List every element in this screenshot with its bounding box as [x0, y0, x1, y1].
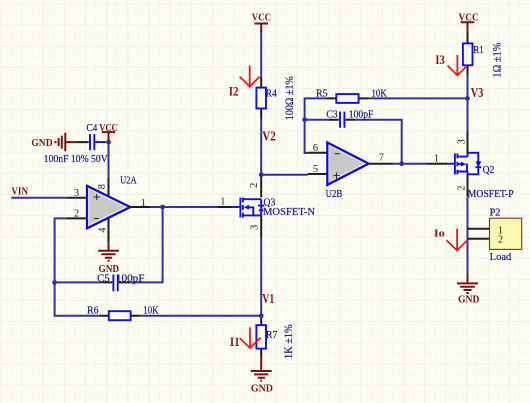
transistor Q3 bulk arm with arrow: [244, 205, 254, 216]
value R1 1 Ohm rotated: [490, 42, 504, 77]
current label I1: [230, 335, 240, 349]
current arrow I3: [448, 55, 468, 75]
power label GND2: [99, 264, 120, 275]
pin number 1 Q3 gate: [220, 197, 225, 208]
svg-text:GND: GND: [458, 294, 479, 305]
value C4 100nF 10% 50V: [44, 154, 108, 165]
resistor R4 body: [256, 88, 266, 109]
svg-text:GND: GND: [31, 138, 52, 149]
pin number 7 U2B: [379, 152, 384, 163]
transistor Q3 gate bar: [239, 198, 241, 218]
svg-text:R5: R5: [316, 88, 328, 99]
designator R7: [266, 330, 278, 341]
transistor Q2 gate lead: [448, 163, 455, 165]
svg-text:1: 1: [141, 198, 146, 209]
value R7 1K rotated: [283, 324, 295, 359]
svg-text:5: 5: [313, 164, 318, 175]
pin number 2 U2A: [74, 209, 79, 220]
power label VCC1: [99, 123, 118, 134]
wire node A to C5 left: [55, 281, 103, 283]
junction node C3 branch: [302, 117, 307, 122]
pin number 2 Q3 drain rotated: [249, 183, 260, 188]
junction node output U2A: [160, 205, 165, 210]
wire C5 right up to output net: [129, 207, 163, 282]
transistor Q2 body diode: [475, 161, 481, 167]
pin number 3 Q2 drain rotated: [457, 139, 468, 144]
svg-text:VCC: VCC: [252, 12, 271, 23]
wire node A down to R6: [55, 282, 99, 315]
op-amp U2B pin 6: [308, 152, 328, 154]
pin number 3 U2A: [74, 188, 79, 199]
svg-text:4: 4: [97, 227, 108, 233]
net label VIN: [11, 186, 28, 197]
op-amp U2A minus sign: [94, 218, 99, 220]
wire node V2 to U2B pin 5: [261, 174, 307, 176]
power port VCC1 above C4: [102, 132, 115, 140]
op-amp U2B pin 5: [308, 173, 328, 175]
resistor R6 pins: [99, 315, 141, 317]
junction node feedback A: [52, 280, 57, 285]
svg-text:V1: V1: [262, 292, 274, 307]
svg-text:100Ω ±1%: 100Ω ±1%: [282, 76, 296, 120]
svg-text:100pF: 100pF: [349, 109, 374, 120]
svg-text:1Ω ±1%: 1Ω ±1%: [490, 42, 504, 77]
junction node at VCC1/C4: [106, 140, 111, 145]
ground GND4 below load: [457, 274, 478, 294]
op-amp U2A pin 3: [66, 197, 87, 199]
resistor R1 pins: [467, 33, 469, 75]
junction node V2/pin5: [259, 172, 264, 177]
junction node V3: [465, 96, 470, 101]
current label I3: [435, 53, 444, 67]
wire R1 bottom to node V3: [467, 75, 469, 99]
capacitor C4 plates: [90, 134, 94, 150]
wire U2A pin2 feedback left elbow: [55, 218, 67, 282]
svg-text:1: 1: [220, 197, 225, 208]
value Q2 MOSFET-P: [468, 189, 514, 200]
capacitor C5 pins: [102, 281, 129, 283]
pin number 1 Q2 gate: [434, 154, 439, 165]
op-amp U2A body: [87, 186, 130, 229]
wire VCC2 down to R4: [260, 33, 262, 78]
power label VCC3: [459, 13, 479, 24]
svg-text:C4: C4: [86, 123, 97, 134]
transistor Q2 drain pin (3): [467, 131, 469, 153]
junction node U2B output: [399, 161, 404, 166]
value R5 10K: [372, 88, 388, 99]
svg-text:2: 2: [498, 235, 503, 246]
svg-text:VCC: VCC: [459, 13, 479, 24]
transistor Q3 channel segments: [242, 198, 244, 218]
current label I2: [229, 85, 239, 99]
wire Q2 source down to load and GND: [467, 196, 469, 273]
svg-text:3: 3: [74, 188, 79, 199]
capacitor C3 plates: [340, 112, 344, 128]
resistor R7 pins: [260, 316, 262, 359]
pin number 1 U2A: [141, 198, 146, 209]
transistor Q2 body diode loop: [468, 153, 479, 175]
transistor Q3 source pin (3): [260, 215, 262, 237]
current arrow Io: [447, 229, 468, 251]
resistor R7 body: [256, 325, 266, 348]
wire R5 right to node V3: [369, 97, 468, 99]
wire C3 left branch: [305, 119, 329, 121]
transistor Q2 source arm: [457, 172, 467, 175]
wire R5 left elbow down to U2B pin 6: [305, 98, 327, 153]
wire R4 bottom to node V2: [260, 119, 262, 175]
power label GND1: [31, 138, 52, 149]
transistor Q2 gate bar: [454, 153, 456, 174]
svg-text:VIN: VIN: [11, 186, 28, 197]
svg-text:I3: I3: [435, 53, 444, 67]
power label GND3: [251, 383, 273, 394]
svg-text:R6: R6: [87, 305, 99, 316]
resistor R6 body: [109, 311, 131, 320]
value P2 Load: [490, 252, 512, 263]
junction node V1: [259, 313, 264, 318]
net label V3: [471, 86, 484, 101]
svg-text:MOSFET-N: MOSFET-N: [263, 207, 316, 218]
transistor Q3 body diode: [258, 206, 264, 212]
transistor Q2 gate pin black: [425, 163, 447, 165]
svg-text:3: 3: [250, 225, 261, 230]
transistor Q3 gate lead: [232, 206, 241, 208]
wire C3 right to output junction: [355, 120, 401, 164]
net label V1: [262, 292, 274, 307]
designator Q3: [264, 198, 276, 209]
transistor Q3 trunk: [260, 199, 262, 215]
current arrow I1: [240, 327, 261, 348]
pin number 8 U2A rotated: [97, 184, 108, 189]
pin number 6 U2B: [313, 143, 318, 154]
svg-text:1: 1: [434, 154, 439, 165]
connector P2 pin number 2: [498, 235, 503, 246]
resistor R4 pins: [260, 77, 262, 119]
svg-text:8: 8: [97, 184, 108, 189]
svg-text:100nF 10% 50V: 100nF 10% 50V: [44, 154, 108, 165]
transistor Q3 source arm: [243, 214, 261, 216]
svg-text:U2B: U2B: [326, 189, 343, 200]
svg-text:Io: Io: [434, 228, 445, 239]
value R4 100 Ohm rotated: [282, 76, 296, 120]
designator R1: [473, 45, 484, 56]
svg-text:10K: 10K: [372, 88, 388, 99]
svg-text:V3: V3: [471, 86, 484, 101]
svg-text:100pF: 100pF: [116, 273, 145, 284]
value Q3 MOSFET-N: [263, 207, 316, 218]
value C5 100pF: [116, 273, 145, 284]
designator P2: [490, 208, 501, 219]
svg-text:2: 2: [457, 186, 468, 191]
svg-text:7: 7: [379, 152, 384, 163]
transistor Q2 bulk arm with arrow: [457, 162, 467, 172]
transistor Q2 source pin (2): [467, 174, 469, 196]
svg-text:U2A: U2A: [120, 176, 137, 187]
capacitor C3 pins: [329, 119, 356, 121]
svg-text:C3: C3: [326, 109, 338, 120]
svg-text:GND: GND: [251, 383, 273, 394]
op-amp U2A pin 1 (output): [130, 206, 150, 208]
current arrow I2: [240, 66, 260, 87]
wire U2A output to Q3 gate: [150, 206, 217, 208]
resistor R5 body: [336, 94, 358, 103]
op-amp U2B pin 7 (output): [369, 163, 393, 165]
transistor Q2 channel segments: [456, 153, 458, 174]
designator Q2: [483, 165, 495, 176]
svg-text:R7: R7: [266, 330, 278, 341]
wire R6 right to node V1: [140, 315, 261, 317]
svg-text:R4: R4: [266, 89, 277, 100]
current label Io: [434, 228, 445, 239]
designator R4: [266, 89, 277, 100]
designator C3: [326, 109, 338, 120]
designator C5: [97, 273, 110, 284]
transistor Q2 drain arm: [457, 153, 467, 157]
power label VCC2: [252, 12, 271, 23]
designator U2A: [120, 176, 137, 187]
capacitor C4 pins: [77, 141, 106, 143]
connector P2 pin number 1: [498, 226, 503, 237]
wire node V3 down to Q2 drain: [467, 98, 469, 130]
wire VIN to U2A pin 3: [11, 197, 66, 199]
svg-text:R1: R1: [473, 45, 484, 56]
svg-text:V2: V2: [262, 129, 276, 144]
op-amp U2A plus sign: [94, 194, 100, 200]
svg-text:MOSFET-P: MOSFET-P: [468, 189, 514, 200]
capacitor C5 plates: [113, 275, 117, 292]
op-amp U2B plus sign: [333, 172, 339, 178]
wire VCC1 junction down to U2A pin 8: [108, 141, 110, 178]
svg-text:C5: C5: [97, 273, 110, 284]
wire U2B output to Q2 gate: [393, 163, 426, 165]
designator R5: [316, 88, 328, 99]
resistor R1 body: [463, 43, 473, 65]
ground GND2 below U2A: [98, 242, 119, 260]
op-amp U2B minus sign: [335, 153, 340, 155]
svg-text:6: 6: [313, 143, 318, 154]
svg-text:Q2: Q2: [483, 165, 495, 176]
op-amp U2A pin 8 (V+): [108, 178, 110, 197]
op-amp U2A pin 2: [66, 217, 87, 219]
power label GND4: [458, 294, 479, 305]
svg-text:10K: 10K: [143, 305, 159, 316]
value R6 10K: [143, 305, 159, 316]
transistor Q3 drain pin (2): [260, 175, 262, 198]
designator C4: [86, 123, 97, 134]
pin number 5 U2B: [313, 164, 318, 175]
ground GND1 sideways at C4: [56, 133, 77, 152]
connector P2 body: [490, 218, 522, 249]
svg-text:1K ±1%: 1K ±1%: [283, 324, 295, 359]
svg-text:2: 2: [74, 209, 79, 220]
svg-text:Load: Load: [490, 252, 512, 263]
svg-text:I2: I2: [229, 85, 239, 99]
op-amp U2A pin 4 (V-): [108, 217, 110, 243]
pin number 3 Q3 source rotated: [250, 225, 261, 230]
power port VCC2 top middle: [254, 24, 268, 33]
designator U2B: [326, 189, 343, 200]
connector P2 pin 2 line: [468, 238, 490, 240]
pin number 4 U2A rotated: [97, 227, 108, 233]
ground GND3 below R7: [251, 359, 272, 381]
transistor Q3 gate pin black: [217, 206, 231, 208]
designator R6: [87, 305, 99, 316]
svg-text:VCC: VCC: [99, 123, 118, 134]
transistor Q3 drain arm: [243, 198, 261, 200]
net label V2: [262, 129, 276, 144]
wire Q3 source to node V1: [260, 237, 262, 315]
op-amp U2B body: [327, 142, 369, 185]
value C3 100pF: [349, 109, 374, 120]
svg-text:2: 2: [249, 183, 260, 188]
pin number 2 Q2 source rotated: [457, 186, 468, 191]
resistor R5 pins: [326, 97, 368, 99]
connector P2 pin 1 line: [468, 228, 490, 230]
svg-text:I1: I1: [230, 335, 240, 349]
power port VCC3 top right: [461, 22, 475, 32]
svg-text:3: 3: [457, 139, 468, 144]
svg-text:P2: P2: [490, 208, 501, 219]
